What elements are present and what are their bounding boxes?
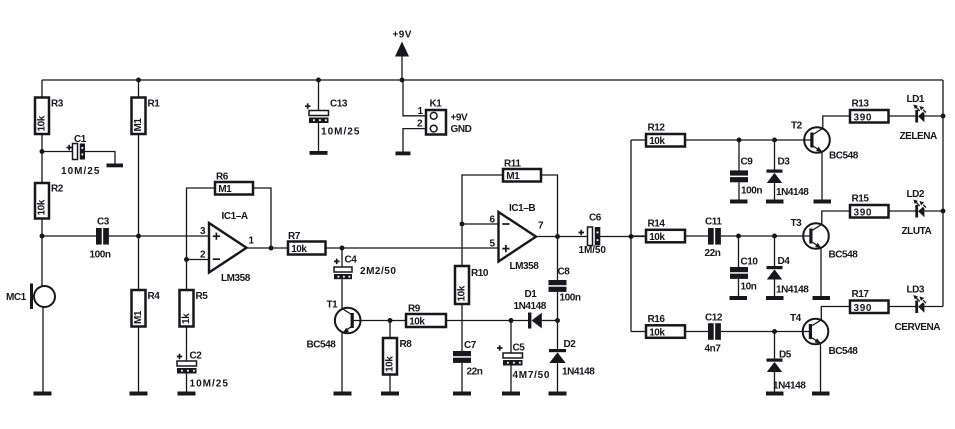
svg-text:390: 390 [854, 207, 872, 218]
svg-text:5: 5 [490, 239, 496, 250]
svg-text:M1: M1 [133, 310, 144, 324]
wire R2 bottom [41, 219, 43, 237]
svg-text:LD3: LD3 [907, 285, 925, 296]
wire R17 to LD3 [889, 306, 916, 308]
svg-text:R5: R5 [196, 291, 209, 302]
wire R10 bottom [461, 304, 463, 321]
node C5/D1 [509, 318, 514, 323]
svg-text:R8: R8 [400, 339, 413, 350]
svg-text:T1: T1 [327, 300, 339, 311]
wire T1 base [354, 320, 406, 322]
ground R4 [130, 392, 148, 396]
svg-text:R15: R15 [852, 194, 870, 205]
svg-text:100n: 100n [560, 293, 581, 304]
wire C2 bottom [186, 374, 188, 392]
svg-text:LD2: LD2 [907, 189, 925, 200]
ground T2 [814, 200, 832, 204]
svg-text:R4: R4 [148, 291, 161, 302]
transistor T1 [307, 300, 361, 351]
wire op-amp output to R7 [247, 247, 289, 249]
wire R16 to C12 [685, 331, 708, 333]
capacitor C4 [334, 255, 396, 280]
svg-text:LM358: LM358 [510, 261, 540, 272]
wire R4 top [138, 236, 140, 290]
svg-text:D4: D4 [778, 256, 791, 267]
op-amp IC1-A [200, 211, 255, 284]
svg-text:1N4148: 1N4148 [562, 367, 595, 378]
wire C13 bottom [318, 123, 320, 151]
svg-text:BC548: BC548 [829, 151, 859, 162]
svg-text:K1: K1 [430, 99, 443, 110]
transistor T4 [790, 313, 858, 357]
svg-text:1: 1 [249, 236, 255, 247]
wire R1 bottom [138, 134, 140, 236]
resistor R4 [132, 290, 161, 327]
wire R7 to IC1-B pin5 [326, 247, 499, 249]
svg-text:10M/25: 10M/25 [61, 166, 100, 177]
svg-text:1N4148: 1N4148 [773, 381, 806, 392]
resistor R5 [180, 290, 209, 327]
node R3/R2/C1 [40, 149, 45, 154]
svg-text:10k: 10k [409, 316, 425, 327]
diode D4 [767, 256, 810, 296]
resistor R1 [132, 98, 161, 135]
wire R15 to LD2 [889, 210, 916, 212]
svg-text:D5: D5 [779, 350, 792, 361]
svg-text:4M7/50: 4M7/50 [513, 370, 550, 381]
wire stage3 [721, 331, 811, 333]
wire C3 right to op-amp pin3 [109, 235, 209, 237]
ground T1 [334, 392, 352, 396]
ground MC1 [34, 392, 52, 396]
node R1/R4 on pin3 wire [136, 234, 141, 239]
wire T2 emitter [821, 152, 823, 200]
resistor R17 [850, 289, 889, 314]
wire C6 right [600, 236, 646, 238]
svg-text:R9: R9 [408, 304, 421, 315]
node R11/output/C8 [555, 234, 560, 239]
wire R8 top [389, 321, 391, 339]
wire C5 bottom [510, 366, 512, 392]
wire R14 to C11 [685, 235, 708, 237]
ground C2 [178, 392, 196, 396]
wire C7 bottom [461, 363, 463, 392]
LED LD3 [895, 285, 941, 334]
node D3 [772, 138, 777, 143]
svg-text:7: 7 [538, 221, 544, 232]
wire T4 collector [821, 307, 850, 320]
node R2/C3/MC1 [40, 234, 45, 239]
wire R6 right loop [253, 188, 271, 248]
microphone MC1 [6, 284, 55, 310]
wire T1 emitter to ground [341, 333, 343, 392]
wire R14 left [631, 235, 646, 237]
wire right rail [942, 80, 944, 307]
svg-text:3: 3 [200, 226, 206, 237]
wire op-amp pin2 [187, 259, 210, 261]
ground C7 [453, 392, 471, 396]
wire C10 top [738, 236, 740, 267]
svg-text:2M2/50: 2M2/50 [360, 266, 396, 277]
resistor R10 [455, 266, 489, 304]
ground R8 [381, 392, 399, 396]
ground K1 [396, 152, 411, 156]
svg-text:4n7: 4n7 [705, 344, 722, 355]
wire R5 top [186, 260, 188, 291]
svg-text:C7: C7 [464, 340, 477, 351]
svg-text:C8: C8 [558, 267, 571, 278]
wire R10 top from pin6 node [461, 224, 463, 266]
svg-text:22n: 22n [467, 367, 483, 378]
transistor T2 [791, 121, 859, 162]
ground D2 [549, 392, 567, 396]
wire R8 bottom [389, 375, 391, 392]
node R1 top rail [136, 78, 141, 83]
svg-text:R12: R12 [648, 123, 666, 134]
wire D5 bottom [774, 372, 776, 392]
node R8/R9/T1 base [388, 318, 393, 323]
svg-text:390: 390 [854, 303, 872, 314]
svg-text:1k: 1k [181, 313, 192, 324]
svg-text:10M/25: 10M/25 [321, 127, 360, 138]
capacitor C9 [730, 157, 762, 197]
node pin2/R5/R6 [184, 257, 189, 262]
svg-text:1M/50: 1M/50 [579, 245, 607, 256]
wire T3 collector [822, 211, 850, 224]
wire T4 emitter [820, 343, 822, 391]
ground C13 [310, 151, 328, 155]
transistor T3 [791, 218, 859, 261]
svg-text:22n: 22n [705, 248, 721, 259]
svg-text:R13: R13 [852, 99, 870, 110]
wire R16 left [631, 331, 646, 333]
svg-text:390: 390 [854, 112, 872, 123]
svg-text:IC1–A: IC1–A [222, 211, 248, 222]
svg-text:M1: M1 [133, 118, 144, 132]
node D5 [772, 329, 777, 334]
resistor R16 [646, 314, 685, 338]
resistor R2 [35, 183, 64, 219]
node D4 [772, 234, 777, 239]
wire C9 bottom [738, 182, 740, 199]
svg-text:10k: 10k [649, 232, 665, 243]
svg-text:+9V: +9V [393, 30, 412, 41]
svg-text:100n: 100n [741, 186, 762, 197]
wire R6 left loop [187, 188, 216, 260]
wire pin6 [462, 223, 499, 225]
svg-text:R17: R17 [852, 289, 870, 300]
wire R3 to R2 [41, 134, 43, 183]
ground C5 [502, 392, 520, 396]
svg-text:R1: R1 [148, 99, 161, 110]
svg-text:IC1–B: IC1–B [509, 203, 535, 214]
wire K1 pin1 to rail [403, 80, 426, 116]
wire R5 to C2 [186, 327, 188, 362]
capacitor C13 [305, 78, 360, 138]
wire C4 to T1 collector [341, 279, 343, 309]
wire C4 top [341, 248, 343, 267]
wire MC1 bottom [42, 307, 44, 392]
resistor R8 [383, 338, 412, 375]
ground D3 [766, 200, 784, 204]
wire top +9V rail [42, 79, 943, 81]
wire T2 collector [823, 116, 850, 128]
capacitor C11 [705, 217, 723, 260]
svg-text:LM358: LM358 [221, 273, 251, 284]
svg-text:M1: M1 [506, 171, 520, 182]
svg-text:R2: R2 [51, 184, 64, 195]
svg-text:C12: C12 [705, 313, 723, 324]
resistor R14 [646, 219, 685, 243]
svg-text:+9V: +9V [451, 113, 469, 124]
node distribution rail [629, 234, 634, 239]
capacitor C10 [730, 257, 758, 293]
svg-text:CERVENA: CERVENA [895, 322, 941, 333]
svg-text:T3: T3 [791, 218, 803, 229]
wire R1 top [138, 80, 140, 98]
svg-text:BC548: BC548 [829, 346, 859, 357]
wire stage2 [721, 235, 811, 237]
wire LD3 to rail [924, 306, 943, 308]
svg-text:D1: D1 [525, 289, 538, 300]
ground C9 [730, 200, 748, 204]
svg-text:C13: C13 [330, 99, 348, 110]
wire LD2 to rail [924, 210, 943, 212]
svg-text:2: 2 [417, 119, 423, 130]
svg-text:10M/25: 10M/25 [190, 379, 229, 390]
svg-text:C1: C1 [74, 134, 87, 145]
svg-text:1N4148: 1N4148 [776, 187, 809, 198]
svg-text:BC548: BC548 [829, 250, 859, 261]
svg-text:GND: GND [451, 124, 472, 135]
node C10 [736, 234, 741, 239]
svg-text:2: 2 [200, 250, 206, 261]
node R6/output [269, 246, 274, 251]
wire C3 left [42, 235, 96, 237]
svg-text:C10: C10 [741, 257, 759, 268]
svg-text:D2: D2 [564, 339, 577, 350]
svg-text:C3: C3 [97, 217, 110, 228]
wire D1 right [542, 320, 558, 322]
wire output to C6 [536, 236, 588, 238]
svg-text:R16: R16 [648, 314, 666, 325]
node LD2 rail [941, 209, 946, 214]
capacitor C12 [705, 313, 723, 355]
node pin6/R11/R10 [460, 222, 465, 227]
ground D5 [766, 392, 784, 396]
wire R3 top [41, 80, 43, 98]
svg-text:D3: D3 [778, 157, 791, 168]
LED LD1 [900, 94, 938, 142]
svg-text:R6: R6 [216, 172, 229, 183]
wire C8 top [557, 237, 559, 281]
wire D5 top [774, 332, 776, 359]
wire distribution rail [630, 140, 632, 332]
wire C5 top [510, 321, 512, 354]
node D1/D2/C8 [555, 318, 560, 323]
wire R12 left [631, 139, 646, 141]
capacitor C8 [549, 267, 581, 304]
svg-text:10k: 10k [37, 115, 48, 131]
capacitor C7 [453, 340, 483, 378]
svg-text:10n: 10n [741, 282, 757, 293]
svg-text:10k: 10k [649, 327, 665, 338]
svg-text:C9: C9 [741, 157, 754, 168]
resistor R6 [215, 172, 253, 195]
node C4 top [340, 246, 345, 251]
svg-text:C11: C11 [705, 217, 722, 228]
capacitor C5 [497, 343, 550, 382]
svg-text:10k: 10k [457, 285, 468, 301]
wire R13 to LD1 [889, 115, 916, 117]
diode D5 [767, 350, 807, 392]
wire stage1 [685, 139, 812, 141]
svg-text:10k: 10k [37, 199, 48, 215]
wire T3 emitter [820, 248, 822, 296]
wire R9 right [446, 320, 511, 322]
resistor R11 [503, 159, 541, 182]
svg-text:1N4148: 1N4148 [514, 301, 547, 312]
svg-text:T2: T2 [791, 121, 803, 132]
wire D3 top [774, 140, 776, 170]
svg-text:10k: 10k [385, 356, 396, 372]
ground D4 [766, 296, 784, 300]
svg-text:R14: R14 [648, 219, 666, 230]
svg-text:10k: 10k [649, 136, 665, 147]
svg-text:10k: 10k [291, 244, 307, 255]
svg-text:LD1: LD1 [907, 94, 925, 105]
ground T3 [813, 296, 831, 300]
wire LD1 to rail [924, 115, 943, 117]
wire D1 left [511, 320, 528, 322]
svg-text:100n: 100n [90, 250, 111, 261]
svg-text:C4: C4 [345, 255, 358, 266]
resistor R13 [850, 99, 889, 124]
wire C10 bottom [738, 279, 740, 296]
supply +9V arrow [393, 30, 412, 83]
resistor R3 [35, 98, 64, 135]
op-amp IC1-B [490, 203, 545, 272]
svg-text:R10: R10 [471, 268, 489, 279]
LED LD2 [902, 189, 932, 237]
svg-text:BC548: BC548 [307, 340, 337, 351]
resistor R7 [288, 231, 326, 255]
wire R11 left loop [462, 175, 503, 224]
wire C9 top [738, 140, 740, 171]
svg-text:R7: R7 [288, 231, 301, 242]
svg-text:T4: T4 [790, 313, 802, 324]
node LD1 rail [941, 114, 946, 119]
capacitor C2 [177, 351, 229, 390]
svg-text:C6: C6 [589, 213, 602, 224]
connector K1 [417, 99, 472, 136]
svg-text:MC1: MC1 [6, 292, 27, 303]
svg-text:C2: C2 [190, 351, 203, 362]
svg-text:1N4148: 1N4148 [776, 285, 809, 296]
svg-text:ZLUTA: ZLUTA [902, 226, 932, 237]
capacitor C1 [61, 134, 100, 177]
ground T4 [812, 392, 830, 396]
capacitor C6 [579, 213, 607, 257]
wire C1 left [42, 151, 73, 153]
wire D2 bottom [557, 363, 559, 392]
wire C1 right to ground [85, 152, 115, 164]
diode D1 [514, 289, 547, 329]
wire MC1 top [41, 236, 43, 287]
wire R4 bottom [138, 327, 140, 392]
ground C10 [730, 296, 748, 300]
resistor R15 [850, 194, 889, 219]
svg-text:R11: R11 [504, 159, 521, 170]
resistor R12 [646, 123, 685, 148]
wire K1 pin2 to ground [403, 129, 426, 152]
wire D4 bottom [774, 280, 776, 297]
node C9 [737, 138, 742, 143]
wire R11 right loop [541, 175, 558, 237]
wire D2 top [557, 321, 559, 350]
wire D3 bottom [774, 183, 776, 200]
svg-text:M1: M1 [218, 184, 232, 195]
svg-text:R3: R3 [51, 99, 64, 110]
wire C8 bottom [557, 292, 559, 321]
diode D2 [549, 339, 595, 378]
capacitor C3 [90, 217, 111, 261]
wire C7 top [461, 321, 463, 352]
diode D3 [767, 157, 810, 199]
wire D4 top [774, 236, 776, 266]
svg-text:C5: C5 [513, 343, 526, 354]
ground C1 [107, 164, 124, 168]
svg-text:ZELENA: ZELENA [900, 131, 938, 142]
resistor R9 [406, 304, 446, 328]
